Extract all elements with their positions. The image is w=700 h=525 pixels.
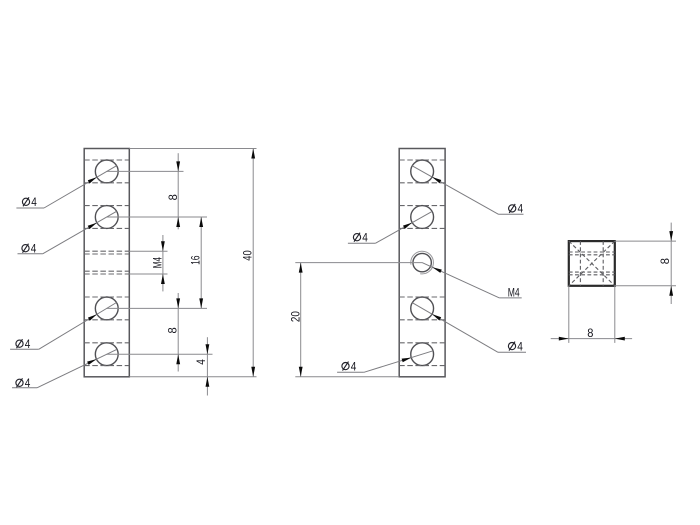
- leader arrow for diameter 4 side hole 2: [403, 223, 412, 229]
- hole circle 4 (front view): [95, 343, 118, 366]
- extension line from front hole 4 center: [107, 353, 213, 355]
- M4 tapped hole inner circle (side view): [413, 253, 431, 271]
- dimension 16 line: [200, 217, 202, 308]
- leader line for diameter 4 side hole 1: [499, 213, 524, 215]
- dimension M4 arrow upper: [161, 241, 165, 251]
- hidden line: M4 major lower (end view): [569, 274, 615, 276]
- hidden line: top tangent of hole 1 (front): [84, 159, 129, 161]
- hole circle 4 (side view): [411, 343, 434, 366]
- label diameter 4 side hole 1: [509, 205, 516, 212]
- end view square outline: [569, 241, 615, 286]
- front view plate outline: [84, 149, 129, 377]
- hole circle 1 (side view): [411, 160, 434, 183]
- extension line end view bottom edge: [615, 285, 676, 287]
- hidden line: top tangent of side hole 1: [399, 159, 445, 161]
- hole circle 2 (front view): [95, 206, 118, 229]
- M4 thread major diameter arc (side view): [411, 251, 434, 274]
- hole circle 1 (front view): [95, 160, 118, 183]
- leader arrow for diameter 4 front hole 3: [88, 314, 97, 321]
- dimension 8 (end height) arrow lower: [669, 286, 673, 296]
- svg-text:40: 40: [241, 250, 255, 261]
- svg-text:4: 4: [351, 359, 357, 373]
- extension line from front hole 2 center: [107, 216, 207, 218]
- hidden line: top tangent of side hole 2: [399, 205, 445, 207]
- dimension 40 arrow upper: [251, 149, 255, 159]
- hidden line: hole right tangent (end view): [602, 241, 604, 286]
- hidden line: bottom tangent of hole 1 (front): [84, 182, 129, 184]
- hidden line: bottom tangent of side hole 2: [399, 227, 445, 229]
- dimension 8 (end view width) line: [551, 338, 632, 340]
- hidden line: M4 minor upper (end view): [569, 254, 615, 256]
- dimension 40 arrow lower: [251, 367, 255, 377]
- end view dashed diagonal 2: [569, 241, 615, 286]
- leader line for M4 tapped hole: [499, 297, 521, 299]
- dimension 20 line: [300, 263, 302, 377]
- svg-text:M4: M4: [150, 257, 164, 268]
- leader line for diameter 4 front hole 1: [16, 207, 44, 209]
- leader line for diameter 4 side hole 3: [498, 351, 526, 353]
- hidden line: top tangent of side hole 4: [399, 342, 445, 344]
- svg-text:4: 4: [194, 359, 208, 365]
- extension line M4 lower (front): [129, 273, 167, 275]
- dimension 8 (end height) arrow upper: [669, 231, 673, 241]
- hidden line: bottom tangent of hole 4 (front): [84, 365, 129, 367]
- dimension 8 (front top) line: [177, 153, 179, 229]
- hole circle 3 (side view): [411, 297, 434, 320]
- extension line from front hole 3 center: [107, 307, 207, 309]
- extension line end view right edge downward: [614, 286, 616, 343]
- hidden line: M4 major upper (end view): [569, 251, 615, 253]
- hidden line: top tangent of side hole 3: [399, 296, 445, 298]
- dimension 8 (end width) arrow left: [559, 337, 569, 341]
- hidden line: top tangent of hole 2 (front): [84, 205, 129, 207]
- extension line from front hole 1 center: [107, 170, 184, 172]
- dimension 8 (front top) arrow lower: [176, 217, 180, 227]
- hidden line: top tangent of hole 4 (front): [84, 342, 129, 344]
- extension line from side view bottom edge: [295, 376, 399, 378]
- hidden line: M4 minor lower (end view): [569, 271, 615, 273]
- dimension 16 arrow lower: [199, 298, 203, 308]
- leader line for diameter 4 side hole 2: [348, 242, 376, 244]
- svg-text:4: 4: [25, 376, 31, 390]
- label diameter 4 front hole 4: [16, 379, 23, 386]
- svg-text:8: 8: [166, 194, 180, 200]
- dimension 20 arrow upper: [299, 263, 303, 273]
- extension line end view left edge downward: [568, 286, 570, 343]
- extension line from front plate top edge: [129, 148, 256, 150]
- extension line from M4 center (side view): [295, 262, 422, 264]
- hidden line: bottom tangent of side hole 4: [399, 365, 445, 367]
- label diameter 4 front hole 2: [22, 245, 29, 252]
- leader arrow for diameter 4 front hole 2: [88, 223, 97, 229]
- end view dashed diagonal 1: [569, 241, 615, 286]
- leader arrow for diameter 4 side hole 1: [432, 177, 441, 183]
- hole circle 2 (side view): [411, 206, 434, 229]
- hidden line: hole left tangent (end view): [579, 241, 581, 286]
- leader arrow for diameter 4 side hole 3: [432, 314, 441, 320]
- leader arrow for M4 tapped hole: [432, 267, 441, 273]
- hidden line: bottom tangent of side hole 1: [399, 182, 445, 184]
- svg-text:20: 20: [288, 311, 302, 322]
- svg-text:16: 16: [189, 255, 203, 265]
- svg-text:4: 4: [31, 195, 37, 209]
- dimension 20 arrow lower: [299, 367, 303, 377]
- hidden line: bottom tangent of hole 2 (front): [84, 227, 129, 229]
- dimension 4 arrow lower: [206, 377, 210, 387]
- hidden line: bottom tangent of side hole 3: [399, 319, 445, 321]
- svg-text:8: 8: [658, 258, 672, 264]
- dimension 8 (end view height) line: [670, 223, 672, 304]
- svg-text:4: 4: [25, 337, 31, 351]
- leader line for diameter 4 front hole 4: [12, 387, 37, 389]
- svg-text:8: 8: [587, 326, 593, 340]
- dimension 8 (front bottom) line: [177, 293, 179, 372]
- dimension M4 arrow lower: [161, 274, 165, 284]
- side view plate outline: [399, 149, 445, 377]
- label diameter 4 side hole 4: [342, 363, 349, 370]
- hidden line: bottom tangent of hole 3 (front): [84, 319, 129, 321]
- hole circle 3 (front view): [95, 297, 118, 320]
- dimension 40 line: [252, 149, 254, 377]
- dimension 4 line: [206, 337, 208, 395]
- svg-text:4: 4: [517, 339, 523, 353]
- dimension 16 arrow upper: [199, 217, 203, 227]
- svg-text:4: 4: [362, 231, 368, 245]
- dimension 8 (end width) arrow right: [615, 337, 625, 341]
- hidden line: M4 thread major lower (front view): [84, 273, 129, 275]
- label diameter 4 front hole 1: [22, 198, 29, 205]
- leader line for diameter 4 front hole 2: [18, 253, 43, 255]
- extension line end view top edge: [615, 240, 676, 242]
- leader arrow for diameter 4 front hole 4: [87, 359, 96, 365]
- dimension 4 arrow upper: [206, 344, 210, 354]
- hidden line: M4 drill lower (front view): [84, 270, 129, 272]
- leader line for diameter 4 front hole 3: [10, 348, 39, 350]
- leader line for diameter 4 side hole 4: [337, 371, 364, 373]
- dimension 8 (front top) arrow upper: [176, 161, 180, 171]
- dimension M4 line: [162, 235, 164, 291]
- svg-text:8: 8: [166, 327, 180, 333]
- hidden line: M4 drill upper (front view): [84, 253, 129, 255]
- extension line M4 upper (front): [129, 250, 167, 252]
- svg-text:M4: M4: [508, 285, 520, 299]
- label diameter 4 front hole 3: [16, 340, 23, 347]
- hidden line: top tangent of hole 3 (front): [84, 296, 129, 298]
- leader arrow for diameter 4 side hole 4: [402, 358, 412, 363]
- svg-text:4: 4: [31, 242, 37, 256]
- label diameter 4 side hole 3: [508, 343, 515, 350]
- svg-text:4: 4: [518, 202, 524, 216]
- leader arrow for diameter 4 front hole 1: [88, 177, 97, 183]
- extension line from front plate bottom edge: [129, 376, 256, 378]
- dimension 8 (front bottom) arrow upper: [176, 298, 180, 308]
- label diameter 4 side hole 2: [353, 234, 360, 241]
- hidden line: M4 thread major upper (front view): [84, 250, 129, 252]
- dimension 8 (front bottom) arrow lower: [176, 354, 180, 364]
